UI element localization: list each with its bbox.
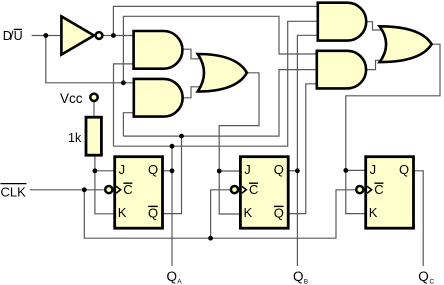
svg-text:J: J — [119, 162, 126, 177]
wire: QA riser to bus — [171, 146, 173, 171]
FF1 pin labels — [118, 162, 158, 221]
svg-text:Q: Q — [148, 206, 158, 221]
FF3 pin labels — [369, 162, 409, 220]
inverter U1 bubble — [96, 32, 103, 39]
wire: OR1 output to FF2 J — [219, 73, 259, 171]
wire: FF1 notQ to notQA bus — [162, 136, 182, 214]
node: CLK to FF2 junction — [208, 236, 213, 241]
svg-text:Q: Q — [167, 269, 178, 284]
wire: D/U branch down to AND2 top input — [46, 36, 133, 83]
flip-flop FF3 box — [366, 157, 414, 229]
label QB — [293, 269, 308, 285]
svg-text:B: B — [304, 279, 308, 285]
svg-text:C: C — [374, 182, 383, 197]
wire: QA drop to label — [171, 171, 173, 266]
and-gate AND2 — [134, 79, 183, 117]
wire: Vcc to resistor — [93, 101, 95, 117]
wire: D/U riser to AND4 top input — [123, 16, 317, 83]
flip-flop FF2 box — [240, 157, 288, 229]
node: FF2 Q junction — [295, 168, 300, 173]
wire: FF2 J-K tie — [219, 171, 239, 214]
node: FF3 J-K junction — [343, 168, 348, 173]
svg-text:C: C — [123, 182, 132, 197]
svg-text:Vcc: Vcc — [60, 91, 83, 106]
node: FF1 Q junction — [170, 168, 175, 173]
flip-flop FF1 clock bubble — [105, 186, 112, 193]
wire: CLK branch to FF2 clock — [211, 190, 230, 238]
wire: notQA feed to AND2 bottom input — [123, 113, 133, 136]
node: D/U branch junction — [43, 33, 48, 38]
wire: D/U input lead — [32, 35, 61, 37]
wire: QA feed to AND1 bottom input — [114, 64, 133, 146]
svg-text:CLK: CLK — [1, 184, 27, 199]
FF2 clock triangle — [242, 186, 247, 193]
wire: QB riser to AND3 third input — [297, 35, 317, 171]
node: notQA bus junction — [179, 134, 184, 139]
svg-text:J: J — [244, 162, 251, 177]
FF2 pin labels — [244, 162, 284, 221]
wire: FF3 Q output to label — [414, 171, 423, 266]
wire: inverter output to AND1 top input — [102, 35, 133, 37]
wire: FF1 Q output — [162, 170, 172, 172]
label CLK-bar — [1, 184, 27, 200]
wire: CLK lead to FF1 clock — [30, 189, 104, 191]
wire: AND3 output to OR2 — [366, 22, 385, 30]
wire: notQA bus to AND4 second input — [123, 70, 316, 137]
node: FF2 J-K junction — [217, 169, 222, 174]
svg-text:J: J — [370, 162, 377, 177]
and-gate AND1 — [134, 31, 183, 69]
or-gate OR1 — [198, 54, 247, 92]
label D/U-bar — [3, 29, 23, 43]
wire: AND1 output to OR1 — [182, 49, 203, 59]
inverter U1 triangle — [61, 16, 94, 54]
wire: FF3 J-K tie — [346, 170, 365, 213]
wire: OR2 output to FF3 J — [346, 44, 440, 170]
svg-text:Q: Q — [274, 206, 284, 221]
wire: FF2 Q output — [288, 170, 297, 172]
svg-text:C: C — [249, 182, 258, 197]
node: pullup J-K junction — [93, 168, 98, 173]
wire: QB drop to label — [296, 171, 298, 266]
label QA — [167, 269, 183, 285]
wire: AND2 output to OR1 — [183, 87, 203, 98]
node: inverter output junction — [111, 33, 116, 38]
svg-text:K: K — [369, 205, 378, 220]
or-gate OR2 — [380, 26, 432, 62]
svg-text:K: K — [244, 205, 253, 220]
svg-text:C: C — [429, 279, 434, 285]
wire: AND4 output to OR2 — [367, 60, 386, 69]
svg-text:Q: Q — [148, 162, 158, 177]
wire: FF2 notQ to AND4 third input — [288, 84, 316, 214]
Vcc terminal circle — [90, 94, 97, 101]
FF1 clock triangle — [116, 186, 121, 193]
svg-text:Q: Q — [274, 162, 284, 177]
wire: resistor to FF1 J — [95, 156, 114, 171]
label QC — [418, 269, 434, 285]
flip-flop FF2 clock bubble — [231, 186, 238, 193]
node: D/U to AND4 junction — [121, 80, 126, 85]
flip-flop FF1 box — [115, 157, 163, 229]
and-gate AND3 — [318, 3, 366, 41]
svg-text:1k: 1k — [68, 131, 82, 145]
wire: CLK bus down and across — [84, 190, 355, 238]
flip-flop FF3 clock bubble — [356, 186, 363, 193]
svg-text:A: A — [177, 279, 182, 285]
and-gate AND4 — [317, 51, 366, 89]
FF3 clock triangle — [367, 186, 372, 193]
node: QA bus junction — [170, 144, 175, 149]
svg-text:Q: Q — [399, 162, 409, 177]
node: CLK branch junction — [82, 187, 87, 192]
svg-text:Q: Q — [293, 269, 304, 284]
svg-text:U: U — [14, 29, 23, 43]
resistor R1 1k — [86, 117, 101, 155]
svg-text:Q: Q — [418, 269, 429, 284]
wire: inverter output riser to AND3 top input — [113, 6, 319, 35]
wire: pullup branch to FF1 K — [95, 171, 114, 214]
svg-text:K: K — [118, 205, 127, 220]
wire: QA bus to AND3 second input — [114, 21, 318, 146]
